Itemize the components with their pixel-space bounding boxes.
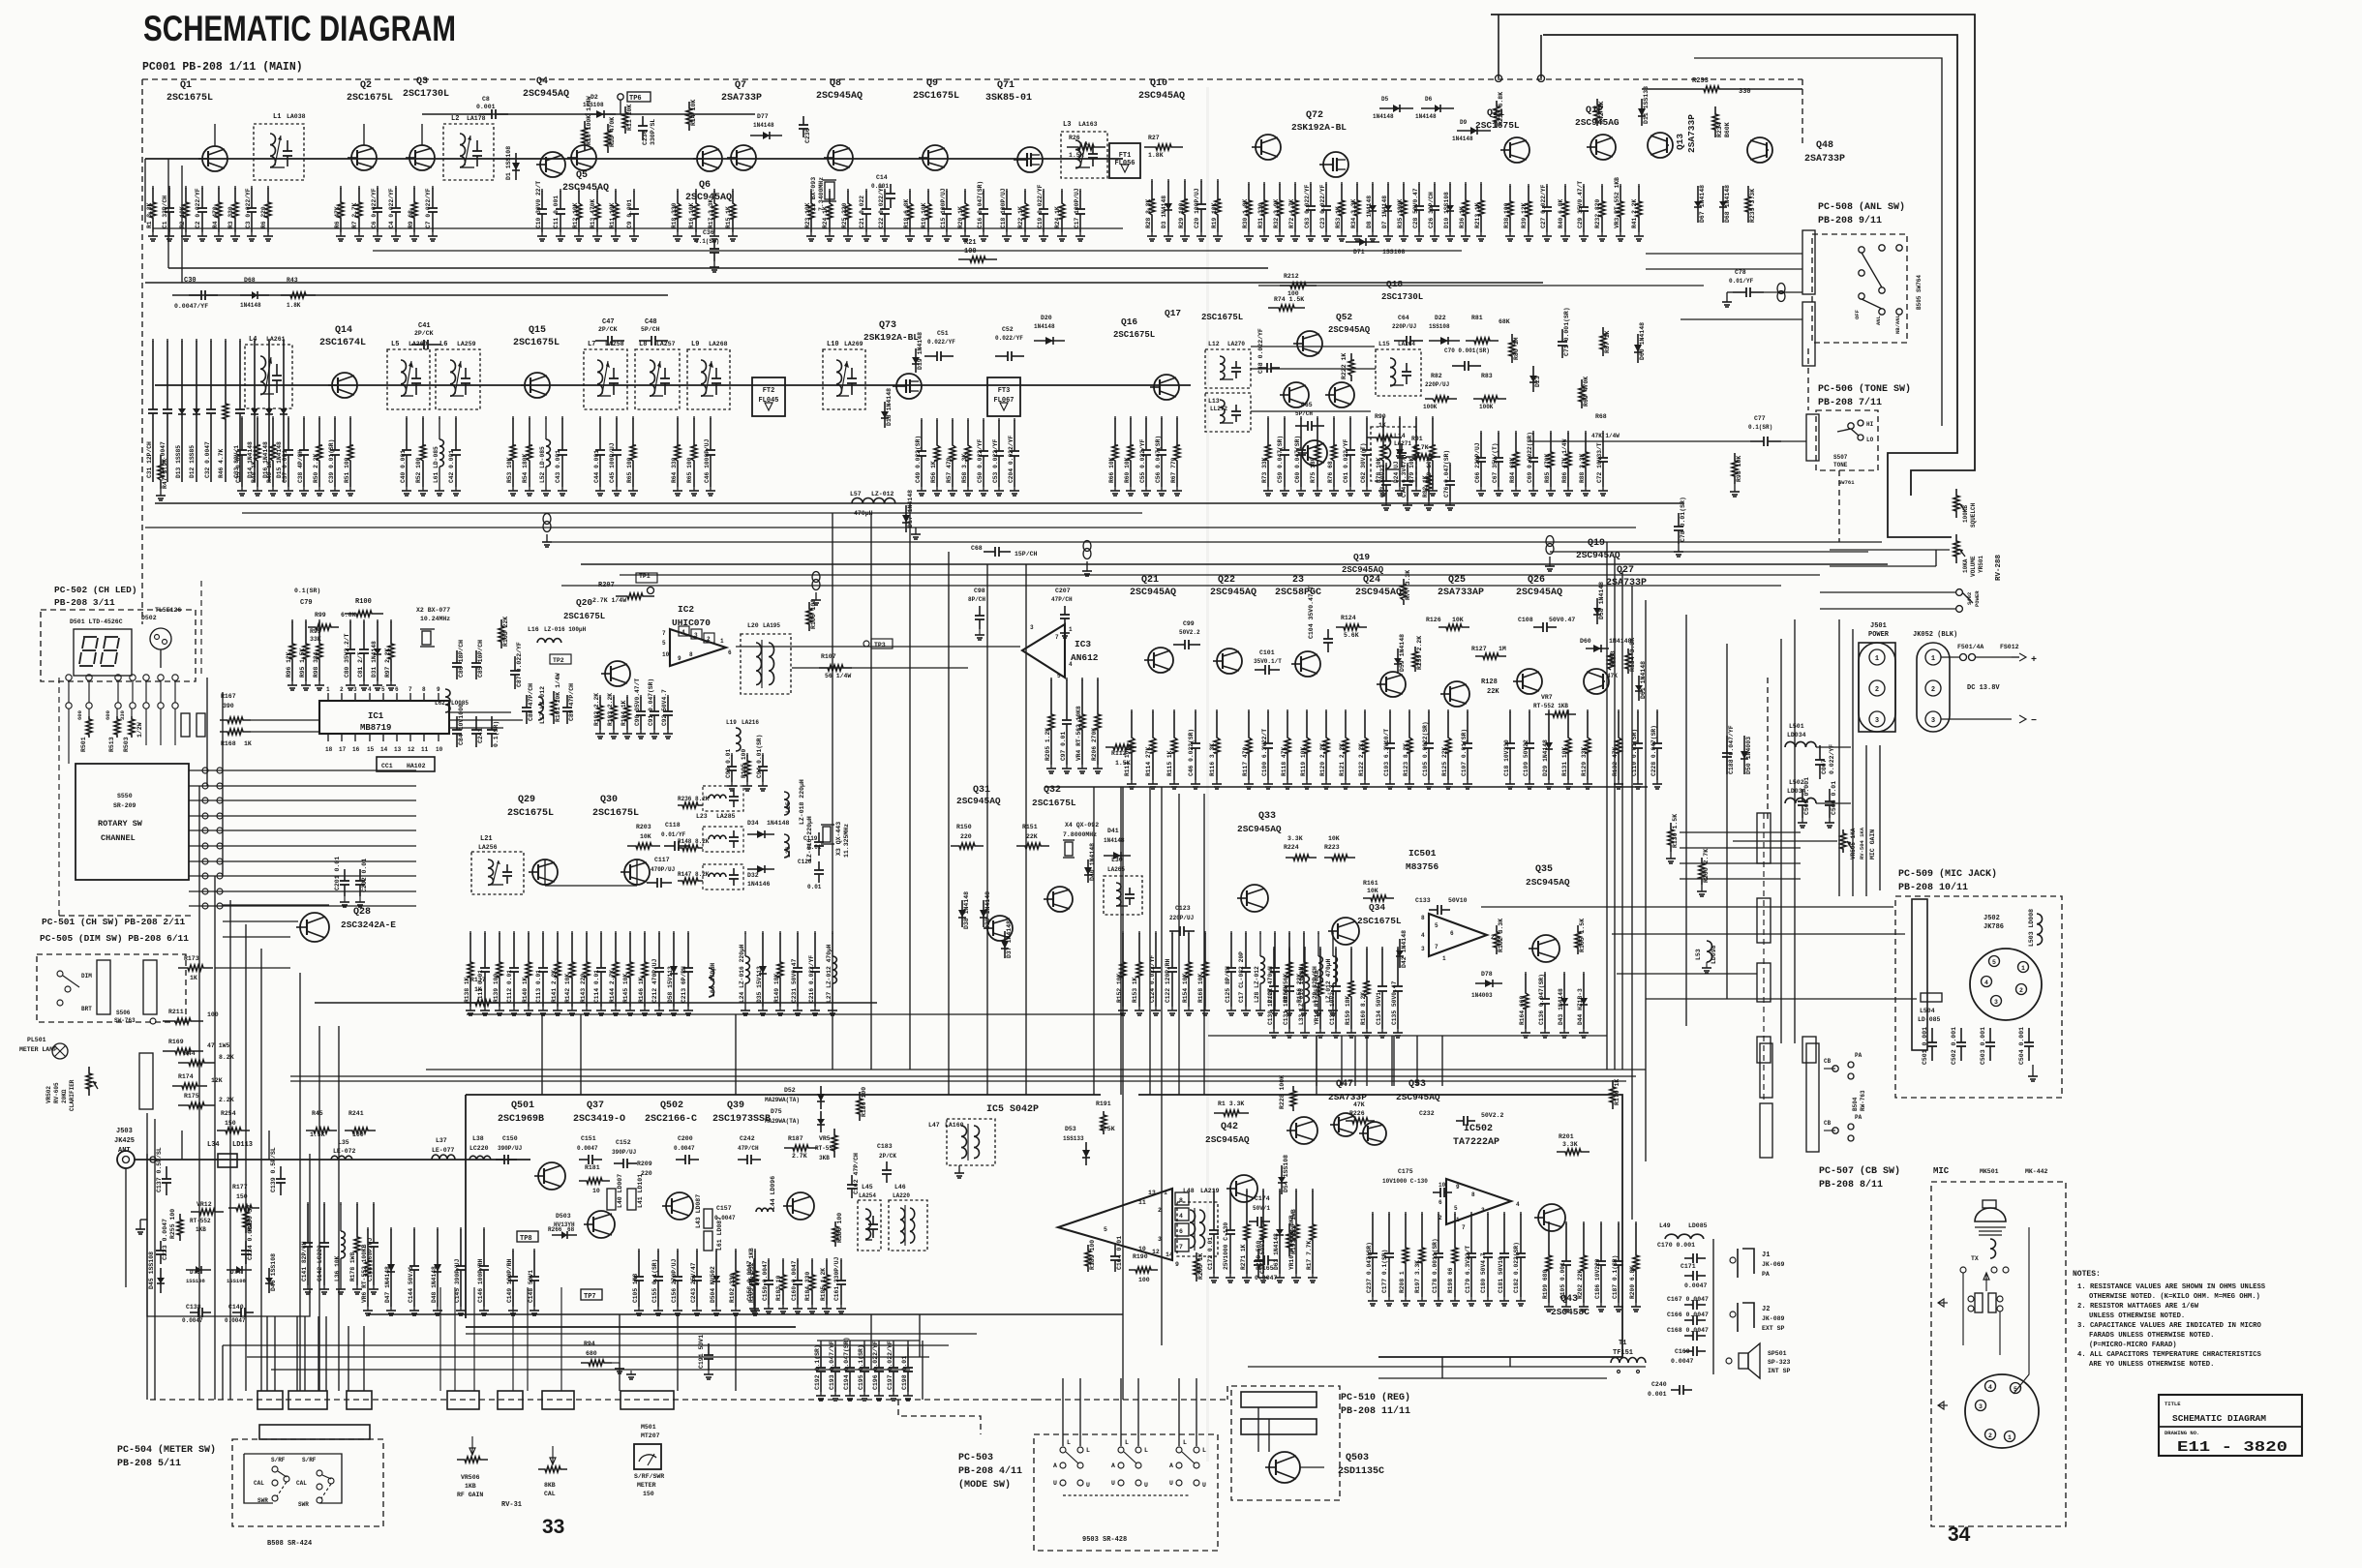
svg-text:C72 10V33/T: C72 10V33/T — [1596, 442, 1603, 483]
svg-text:R2 10K: R2 10K — [179, 206, 186, 228]
capacitor C204 0.022/YF — [1014, 418, 1015, 421]
resistor R116 3.3K — [1216, 709, 1218, 712]
svg-text:Q21: Q21 — [1141, 575, 1159, 586]
capacitor C122 120P/RH — [1171, 931, 1173, 934]
svg-text:R24 1K: R24 1K — [822, 206, 829, 228]
resistor R205 1.2K — [1050, 678, 1052, 680]
svg-text:R107: R107 — [821, 653, 836, 660]
svg-text:YR501: YR501 — [1978, 556, 1984, 573]
svg-text:PC-510 (REG): PC-510 (REG) — [1341, 1392, 1410, 1403]
svg-text:MT207: MT207 — [641, 1432, 660, 1439]
svg-text:2SC1675L: 2SC1675L — [347, 93, 393, 104]
wire top loop outer — [1491, 15, 1975, 496]
resistor R178 1W8 — [356, 1202, 358, 1205]
svg-text:2SC945AQ: 2SC945AQ — [1355, 588, 1402, 598]
svg-text:CLARIFIER: CLARIFIER — [69, 1079, 76, 1111]
capacitor C3 0.022/YF — [251, 186, 253, 189]
svg-text:PC-501 (CH SW) PB-208 2/11: PC-501 (CH SW) PB-208 2/11 — [42, 917, 186, 927]
svg-text:C194 0.047(SR): C194 0.047(SR) — [843, 1337, 850, 1390]
wire vertical mid — [580, 1014, 582, 1095]
capacitor C105 0.0022(SR) — [1428, 709, 1430, 712]
svg-text:C105 1N8: C105 1N8 — [632, 1274, 639, 1303]
svg-text:L33 LZ-016 100µH: L33 LZ-016 100µH — [1298, 966, 1305, 1025]
coil L41 LD101 — [627, 1189, 636, 1210]
pot 8KB CAL — [538, 1466, 567, 1472]
title block — [2159, 1395, 2302, 1456]
svg-text:R13 470K: R13 470K — [590, 199, 596, 228]
transistor Q5 — [571, 145, 596, 170]
svg-text:2.7K: 2.7K — [1413, 444, 1429, 451]
svg-text:1.5K: 1.5K — [1069, 152, 1084, 159]
svg-text:4: 4 — [368, 686, 372, 693]
svg-text:VR3 RT-552 1KB: VR3 RT-552 1KB — [1614, 177, 1620, 228]
svg-text:C157: C157 — [716, 1205, 732, 1212]
svg-text:R17 7.7K: R17 7.7K — [1306, 1241, 1313, 1270]
resistor R197 3.3K — [1421, 1212, 1423, 1215]
svg-text:R184 330: R184 330 — [804, 1272, 811, 1301]
wire row2 main path — [155, 384, 1191, 386]
svg-text:5: 5 — [1454, 1205, 1458, 1212]
svg-text:7.3400MHz: 7.3400MHz — [818, 177, 825, 211]
svg-text:LA259: LA259 — [457, 341, 476, 347]
svg-text:C155 0.1(SR): C155 0.1(SR) — [651, 1259, 658, 1303]
svg-text:1: 1 — [326, 686, 330, 693]
capacitor C42 0.001 — [455, 416, 457, 419]
resistor R211 100 — [163, 1018, 203, 1024]
svg-text:R58 3.3K: R58 3.3K — [961, 454, 968, 483]
connector bar anl — [1802, 230, 1815, 294]
transistor Q35 2SC945AQ — [1532, 935, 1560, 962]
junction row2 — [543, 514, 551, 525]
svg-text:L: L — [1202, 1447, 1206, 1454]
svg-text:Q1: Q1 — [180, 80, 192, 91]
wire cap bank right — [922, 1341, 924, 1400]
ground ant — [140, 1219, 147, 1221]
svg-text:3: 3 — [1931, 717, 1935, 725]
svg-text:TP6: TP6 — [629, 95, 642, 103]
capacitor C146 100P/RH — [483, 1227, 485, 1230]
svg-text:R102 2.2K: R102 2.2K — [593, 693, 600, 726]
svg-text:D60: D60 — [1580, 638, 1591, 645]
diode D43 1N4148 — [1563, 972, 1565, 975]
svg-text:C41: C41 — [418, 322, 431, 330]
svg-text:R142 10K: R142 10K — [564, 974, 571, 1003]
svg-text:C216 0.022/YF: C216 0.022/YF — [808, 955, 815, 1003]
svg-text:CAL: CAL — [254, 1480, 264, 1487]
svg-text:L16: L16 — [528, 626, 539, 633]
capacitor C145 390P/UJ — [460, 1227, 462, 1230]
diode D35 15V113 — [762, 931, 764, 934]
svg-text:SP501: SP501 — [1768, 1350, 1787, 1357]
filter FT2 FL045 — [752, 377, 785, 416]
svg-text:C139 0.5P/SL: C139 0.5P/SL — [270, 1147, 277, 1192]
wire left riser b — [181, 166, 183, 283]
svg-text:7: 7 — [1179, 1244, 1183, 1251]
transistor Q32 2SC1675L — [1047, 887, 1073, 912]
svg-text:D44 HZ1B-3: D44 HZ1B-3 — [1577, 988, 1584, 1025]
capacitor C21 0.022 — [865, 189, 867, 192]
mic cable coil — [1990, 1239, 1996, 1258]
svg-text:3: 3 — [1421, 946, 1425, 952]
resistor R104 1K — [626, 695, 628, 698]
svg-text:2SK192A-BL: 2SK192A-BL — [1291, 122, 1347, 133]
svg-text:OFF: OFF — [1854, 310, 1861, 319]
svg-text:R165 1.5K: R165 1.5K — [1579, 919, 1586, 952]
svg-text:L4: L4 — [249, 336, 257, 344]
svg-text:R3 330: R3 330 — [227, 206, 234, 228]
svg-text:C135 50V0.47: C135 50V0.47 — [1391, 980, 1398, 1025]
resistor R88 3.3K — [1585, 431, 1587, 434]
svg-text:L: L — [1183, 1439, 1187, 1446]
capacitor C194 0.047(SR) — [849, 1341, 851, 1347]
test point TP2 — [550, 654, 571, 664]
svg-text:L6: L6 — [439, 341, 447, 348]
svg-text:PB-208 11/11: PB-208 11/11 — [1341, 1405, 1410, 1417]
svg-text:C117: C117 — [654, 857, 670, 863]
svg-text:PB-208 8/11: PB-208 8/11 — [1819, 1179, 1883, 1191]
svg-text:D31 1N4148: D31 1N4148 — [371, 641, 378, 678]
svg-text:R23 10K: R23 10K — [804, 202, 811, 228]
svg-text:10: 10 — [436, 746, 443, 753]
capacitor C19 0.022/YF — [1043, 189, 1045, 192]
svg-text:R105 100: R105 100 — [741, 749, 747, 778]
svg-text:D503: D503 — [556, 1213, 571, 1220]
svg-text:T1: T1 — [1619, 1340, 1626, 1347]
svg-text:R43: R43 — [287, 277, 298, 284]
svg-text:R164 660: R164 660 — [1519, 996, 1526, 1025]
svg-text:1KB: 1KB — [196, 1226, 206, 1233]
svg-text:C8: C8 — [482, 96, 490, 103]
capacitor C66 220P/UJ — [1480, 431, 1482, 434]
connector bars pc505 — [97, 960, 110, 1014]
svg-text:5: 5 — [381, 686, 385, 693]
svg-text:0.01/YF: 0.01/YF — [1729, 278, 1754, 285]
coil LZ-012 470µH — [1332, 931, 1334, 934]
resistor R52 100 — [422, 416, 424, 419]
svg-text:JK786: JK786 — [1983, 923, 2004, 931]
svg-text:15P/CH: 15P/CH — [1014, 551, 1038, 558]
svg-text:L3: L3 — [1063, 121, 1071, 129]
capacitor C20 100P/UJ — [1200, 179, 1202, 182]
wire vertical bus center — [1120, 787, 1122, 1095]
svg-text:2SC945AQ: 2SC945AQ — [1526, 877, 1570, 888]
svg-text:R98 334: R98 334 — [313, 651, 319, 678]
svg-text:LA269: LA269 — [844, 341, 863, 347]
coil L33 LZ-016 100µH — [1304, 947, 1306, 950]
svg-text:C87 0.022/YF: C87 0.022/YF — [516, 642, 523, 687]
resistor R175 2.2K — [178, 1102, 215, 1108]
svg-text:R232 820: R232 820 — [1594, 199, 1601, 228]
capacitor C136 0.047(SR) — [1544, 972, 1546, 975]
svg-text:YR10 RT-552 8KB: YR10 RT-552 8KB — [1288, 1215, 1295, 1270]
svg-text:PB-208 9/11: PB-208 9/11 — [1818, 215, 1882, 226]
svg-text:R6 220: R6 220 — [260, 206, 267, 228]
svg-text:R104 1K: R104 1K — [621, 700, 627, 726]
wire j503 down — [125, 1168, 127, 1287]
svg-text:(MODE SW): (MODE SW) — [958, 1479, 1011, 1491]
svg-text:MA29WA(TA): MA29WA(TA) — [765, 1118, 800, 1125]
capacitor C60 0.047(SR) — [1300, 416, 1302, 419]
capacitor C30 0.0047/YF — [189, 294, 201, 296]
capacitor C143 160P/UJ — [373, 1202, 375, 1205]
capacitor C36 0.1(SR) — [713, 240, 715, 249]
junction ant — [150, 1157, 156, 1162]
svg-text:D22: D22 — [1435, 315, 1446, 321]
svg-text:PB-208 7/11: PB-208 7/11 — [1818, 397, 1882, 408]
diode D10 1SS108 — [1449, 182, 1451, 185]
svg-text:POWER: POWER — [1868, 631, 1890, 639]
svg-text:50V2.2: 50V2.2 — [1179, 629, 1200, 636]
coil L44 LD096 — [756, 1208, 773, 1212]
svg-text:R88 3.3K: R88 3.3K — [1579, 454, 1586, 483]
transistor Q43 2SC458C — [1538, 1204, 1565, 1231]
svg-text:470P/UJ: 470P/UJ — [651, 866, 675, 873]
wire vertical bus center — [1178, 794, 1180, 1095]
svg-text:C92 50V4.7: C92 50V4.7 — [661, 689, 668, 726]
svg-text:10K: 10K — [1328, 835, 1340, 842]
resistor R44 8.2K — [178, 1060, 215, 1066]
svg-text:C174: C174 — [1255, 1195, 1270, 1202]
svg-text:C173 50V10: C173 50V10 — [1259, 1236, 1266, 1274]
wire vertical mid — [1780, 639, 1782, 1043]
svg-text:U: U — [1169, 1480, 1173, 1487]
wire vertical bus center — [1093, 787, 1095, 1095]
svg-text:Q14: Q14 — [335, 325, 352, 336]
wire row2 under2 — [242, 512, 1142, 514]
svg-text:47K: 47K — [1607, 673, 1618, 679]
fuse L504 LD-085 — [1921, 993, 1942, 1002]
svg-text:C151: C151 — [581, 1135, 596, 1142]
svg-text:MA29WA(TA): MA29WA(TA) — [765, 1097, 800, 1103]
connector dots pc502 row2 — [66, 703, 72, 709]
svg-text:C15 100P/UJ: C15 100P/UJ — [940, 188, 947, 228]
resistor R35 180K — [1403, 182, 1405, 185]
svg-text:R128: R128 — [1481, 678, 1498, 686]
svg-text:LD-085: LD-085 — [1918, 1016, 1941, 1023]
resistor R39 12K — [1528, 184, 1529, 187]
svg-text:R53 10K: R53 10K — [506, 457, 513, 483]
diode D47 1N4148 — [390, 1227, 392, 1230]
inductor L12 LA270 tuned circuit — [1205, 349, 1251, 388]
svg-text:0.0047: 0.0047 — [225, 1317, 246, 1324]
svg-text:R19 10K: R19 10K — [1211, 202, 1218, 228]
connector bar clar — [139, 1053, 153, 1109]
resistor R513 600 — [116, 709, 118, 716]
svg-text:FT1: FT1 — [1119, 152, 1132, 160]
svg-text:4: 4 — [1179, 1213, 1183, 1220]
svg-text:R168 10K: R168 10K — [1197, 974, 1204, 1003]
svg-text:R75 180: R75 180 — [1310, 457, 1317, 483]
capacitor C56 0.047(SR) — [1161, 416, 1163, 419]
wire vertical tx bottom — [870, 1314, 872, 1370]
svg-text:A: A — [1169, 1462, 1173, 1469]
svg-text:2.7K: 2.7K — [792, 1153, 807, 1160]
svg-text:C146 100P/RH: C146 100P/RH — [477, 1258, 484, 1303]
svg-text:X2 BX-077: X2 BX-077 — [416, 607, 450, 614]
ground top ic2 — [915, 528, 917, 534]
resistor R43 1.8K — [281, 292, 316, 298]
svg-text:L53: L53 — [1695, 949, 1702, 960]
svg-text:8: 8 — [422, 686, 426, 693]
svg-text:2SC1675L: 2SC1675L — [167, 93, 213, 104]
svg-text:0.001: 0.001 — [1648, 1391, 1667, 1398]
capacitor C100 6.3V22/T — [1267, 709, 1269, 712]
svg-text:Q6: Q6 — [699, 180, 711, 191]
svg-text:C73 50V22: C73 50V22 — [1379, 465, 1386, 498]
svg-text:C65: C65 — [1301, 402, 1313, 408]
transistor Q14 — [332, 373, 357, 398]
svg-text:C79: C79 — [300, 599, 313, 607]
svg-text:R73 33K: R73 33K — [1261, 457, 1268, 483]
svg-text:R210 6.8K: R210 6.8K — [1498, 92, 1504, 126]
svg-text:L46: L46 — [894, 1184, 906, 1191]
svg-text:600: 600 — [105, 710, 111, 720]
transistor Q48 2SA733P — [1747, 137, 1772, 163]
wire vertical tx right — [1366, 1036, 1368, 1086]
svg-text:R39 12K: R39 12K — [1521, 202, 1528, 228]
wire ic2 to ic3 — [736, 646, 1020, 648]
svg-text:FT3: FT3 — [998, 387, 1011, 395]
svg-text:L35: L35 — [338, 1139, 349, 1146]
svg-text:C105 0.0022(SR): C105 0.0022(SR) — [1422, 721, 1429, 776]
svg-text:12: 12 — [1152, 1249, 1160, 1255]
capacitor C37 0.001 — [288, 416, 289, 419]
resistor R103 2.2K — [613, 695, 615, 698]
svg-text:LA271: LA271 — [1394, 440, 1411, 447]
svg-text:Q42: Q42 — [1221, 1122, 1238, 1132]
svg-text:8: 8 — [1421, 915, 1425, 921]
transistor Q28 2SC3242A-E — [300, 913, 329, 942]
svg-text:2P/CK: 2P/CK — [598, 326, 618, 333]
svg-text:Q503: Q503 — [1346, 1453, 1369, 1463]
wire bus under row1 a — [168, 267, 1268, 269]
svg-text:4: 4 — [1421, 932, 1425, 939]
reg box dashed — [1231, 1386, 1340, 1500]
wire meter dashed jog — [898, 1400, 981, 1434]
resistor R156 22K — [1303, 931, 1305, 934]
svg-text:J503: J503 — [116, 1128, 133, 1135]
svg-text:D46 1SS108: D46 1SS108 — [270, 1253, 277, 1291]
resistor R103 AT-552 1KB — [754, 1249, 756, 1251]
resistor R36 1K — [1465, 182, 1467, 185]
svg-text:R123 8.2K: R123 8.2K — [1403, 743, 1409, 776]
svg-text:C86 18P/CH: C86 18P/CH — [458, 640, 465, 678]
svg-text:B504: B504 — [1852, 1097, 1859, 1111]
capacitor C212 470P/UJ — [658, 931, 660, 934]
svg-text:2SA733P: 2SA733P — [1804, 154, 1845, 165]
svg-text:C89 47P/CH: C89 47P/CH — [568, 683, 575, 721]
svg-text:METER LAMP: METER LAMP — [19, 1046, 57, 1053]
diode D2 1SS108 — [585, 113, 616, 115]
ic IC3 AN612 balanced modulator — [1022, 624, 1065, 678]
transistor Q21 — [1148, 648, 1173, 673]
svg-text:C213 6P/RH: C213 6P/RH — [681, 966, 687, 1003]
resistor R233 330 — [1690, 86, 1733, 92]
svg-text:0.001: 0.001 — [871, 183, 889, 190]
svg-text:D20: D20 — [1041, 315, 1052, 321]
svg-text:C195 0.1(SR): C195 0.1(SR) — [858, 1344, 864, 1390]
svg-text:4: 4 — [1516, 1201, 1520, 1208]
svg-text:3. CAPACITANCE VALUES ARE INDI: 3. CAPACITANCE VALUES ARE INDICATED IN M… — [2077, 1322, 2261, 1330]
svg-text:C35 0.001: C35 0.001 — [235, 450, 242, 483]
ground m501 — [630, 1371, 632, 1374]
svg-text:Q30: Q30 — [600, 795, 618, 805]
svg-text:C112 0.01: C112 0.01 — [506, 970, 513, 1003]
svg-text:R112: R112 — [1111, 750, 1127, 757]
svg-text:(P=MICRO-MICRO FARAD): (P=MICRO-MICRO FARAD) — [2089, 1342, 2177, 1349]
svg-text:Q52: Q52 — [1336, 312, 1352, 322]
resistor R3 330 — [234, 186, 236, 189]
svg-text:1N4148: 1N4148 — [753, 122, 774, 129]
svg-text:0.001: 0.001 — [476, 104, 496, 110]
svg-text:R174: R174 — [178, 1073, 194, 1080]
svg-text:Q501: Q501 — [511, 1101, 534, 1111]
svg-text:R76 68: R76 68 — [1327, 461, 1334, 483]
wire meter dashed ext — [1036, 1399, 1227, 1401]
svg-text:LC220: LC220 — [469, 1145, 489, 1152]
svg-text:R22 1K: R22 1K — [1017, 206, 1024, 228]
wire left links — [223, 904, 329, 906]
resistor R23 10K — [810, 189, 812, 192]
svg-text:R19 10K: R19 10K — [921, 202, 927, 228]
potentiometer volume 10KA — [1953, 534, 1959, 563]
wire left riser a — [167, 159, 169, 268]
wire tx right low b — [1378, 1377, 1607, 1379]
transistor Q9 — [923, 145, 948, 170]
svg-text:TP8: TP8 — [520, 1235, 532, 1243]
wire vertical meter riser — [296, 1316, 298, 1391]
svg-text:R234: R234 — [1716, 122, 1723, 137]
pot VR506 1KB RF GAIN — [457, 1457, 488, 1462]
svg-text:D32: D32 — [747, 872, 759, 879]
capacitor C16 0.047(SR) — [983, 189, 984, 192]
capacitor C196 0.022/YF — [878, 1341, 880, 1347]
svg-text:R265 1K: R265 1K — [1197, 1253, 1204, 1280]
svg-text:2SA733AP: 2SA733AP — [1438, 588, 1484, 598]
svg-text:FL056: FL056 — [1114, 160, 1135, 167]
svg-text:L48: L48 — [1183, 1188, 1195, 1194]
capacitor C237 0.047(SR) — [1372, 1212, 1374, 1215]
svg-text:IC5 S042P: IC5 S042P — [986, 1104, 1039, 1115]
wire vertical tx bottom — [919, 1314, 921, 1357]
wire right drop1 — [1767, 678, 1769, 823]
resistor R185 1.2K — [826, 1258, 828, 1261]
resistor R60 10K — [1130, 416, 1132, 419]
svg-text:C237 0.047(SR): C237 0.047(SR) — [1366, 1242, 1373, 1293]
capacitor C228 0.047(SR) — [1656, 709, 1658, 712]
wire vertical bus right — [1685, 615, 1687, 1026]
capacitor C92 50V4.7 — [667, 695, 669, 698]
crystal X3 QX-443 11.325MHz — [823, 827, 831, 842]
svg-text:PB-208 10/11: PB-208 10/11 — [1898, 882, 1968, 893]
svg-text:1/2W: 1/2W — [136, 722, 143, 738]
svg-text:TL5E126: TL5E126 — [155, 607, 181, 614]
svg-text:9: 9 — [1175, 1261, 1179, 1268]
svg-text:C188 0.047/YF: C188 0.047/YF — [1728, 725, 1735, 774]
svg-text:IC1: IC1 — [368, 711, 384, 721]
svg-text:IC3: IC3 — [1075, 639, 1091, 649]
svg-text:1N4148: 1N4148 — [1452, 136, 1473, 142]
transistor Q25 — [1444, 681, 1469, 707]
svg-text:L2: L2 — [451, 115, 459, 123]
svg-text:LA285: LA285 — [716, 813, 736, 820]
wire top loop inner — [1543, 35, 1957, 537]
svg-text:S402: S402 — [1966, 592, 1973, 605]
svg-text:DRAWING NO.: DRAWING NO. — [2165, 1430, 2199, 1436]
wire row1 main signal path — [145, 158, 1123, 160]
transistor 23 — [1295, 651, 1320, 677]
wire h meter2 — [247, 1356, 929, 1358]
